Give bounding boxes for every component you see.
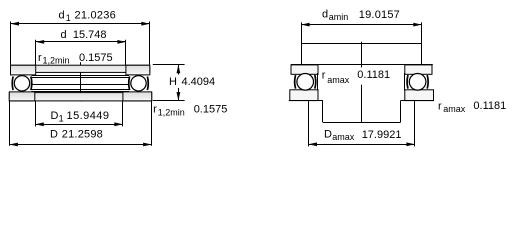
dimension Damax 17.9921 — [309, 101, 415, 147]
svg-text:r: r — [38, 52, 42, 64]
bore edge line right stack — [404, 73, 406, 91]
ball right — [131, 76, 146, 91]
svg-text:1: 1 — [59, 114, 64, 124]
dimension d1 21.0236 — [11, 9, 150, 65]
svg-text:17.9921: 17.9921 — [362, 129, 402, 141]
svg-text:1,2min: 1,2min — [158, 108, 185, 118]
housing face line left — [289, 100, 323, 102]
svg-text:amax: amax — [327, 75, 350, 85]
svg-text:1,2min: 1,2min — [43, 55, 70, 65]
svg-text:15.748: 15.748 — [73, 29, 107, 41]
housing recess — [323, 101, 401, 123]
dimension D 21.2598 — [9, 101, 151, 146]
washer lip arcs left stack ball — [295, 75, 316, 89]
bottom washer (housing washer) — [9, 92, 151, 101]
dimension D1 15.9449 — [35, 101, 123, 126]
svg-text:0.1575: 0.1575 — [79, 52, 113, 64]
centerline left bearing — [80, 62, 82, 101]
svg-text:4.4094: 4.4094 — [182, 76, 216, 88]
dimension damin 19.0157 — [301, 9, 422, 65]
label ramax 0.1181 outer right — [438, 100, 506, 114]
svg-text:r: r — [322, 69, 326, 81]
washer lip arcs left ball — [12, 77, 32, 91]
svg-text:amin: amin — [329, 12, 349, 22]
dimension H 4.4094 — [153, 65, 215, 101]
ball left — [14, 76, 29, 91]
bore edge line left stack — [317, 73, 319, 91]
svg-text:D: D — [50, 128, 58, 140]
svg-text:D: D — [51, 110, 59, 122]
svg-text:0.1575: 0.1575 — [194, 103, 228, 115]
right stack ball — [409, 74, 426, 91]
shaft shoulder — [301, 43, 422, 45]
svg-text:d: d — [322, 9, 328, 21]
left stack shaft washer — [291, 65, 318, 74]
centerline right figure — [361, 42, 363, 68]
left stack ball — [297, 74, 314, 91]
svg-text:amax: amax — [332, 132, 355, 142]
svg-text:1: 1 — [66, 13, 71, 23]
label r1,2min 0.1575 upper left — [38, 52, 113, 66]
svg-text:21.0236: 21.0236 — [75, 10, 117, 22]
bearing top face line — [291, 64, 433, 66]
svg-text:15.9449: 15.9449 — [67, 110, 110, 122]
svg-text:19.0157: 19.0157 — [359, 9, 400, 21]
dimension d 15.748 — [36, 29, 126, 65]
svg-text:amax: amax — [443, 104, 466, 114]
label r1,2min 0.1575 lower right — [153, 103, 227, 117]
left stack housing washer — [290, 90, 318, 101]
svg-text:r: r — [438, 100, 442, 112]
svg-text:d: d — [59, 9, 65, 21]
svg-text:0.1181: 0.1181 — [357, 69, 390, 81]
washer lip arcs right ball — [129, 77, 149, 91]
washer lip arcs right stack ball — [407, 75, 428, 89]
label ramax 0.1181 inner — [322, 69, 390, 85]
svg-text:D: D — [324, 129, 332, 141]
top washer (shaft washer) — [11, 65, 150, 75]
right stack housing washer — [405, 90, 434, 101]
svg-text:0.1181: 0.1181 — [473, 100, 506, 112]
housing face line right — [401, 100, 434, 102]
svg-text:21.2598: 21.2598 — [62, 129, 103, 141]
svg-text:H: H — [169, 76, 177, 88]
right stack shaft washer — [405, 65, 432, 74]
svg-text:d: d — [61, 29, 67, 41]
svg-text:r: r — [153, 104, 157, 116]
cage and raceway lines between balls — [32, 76, 130, 92]
